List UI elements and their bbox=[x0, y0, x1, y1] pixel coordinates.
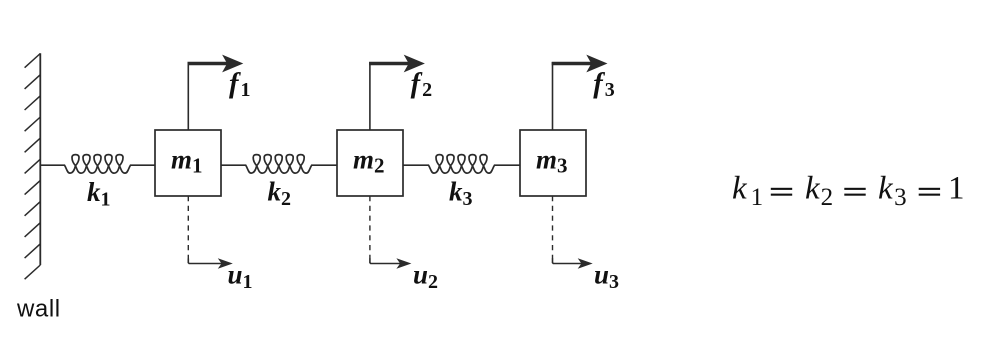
spring k3 bbox=[403, 155, 520, 174]
equation k1 = k2 = k3 = 1 bbox=[732, 171, 965, 211]
wall hatching bbox=[25, 54, 41, 280]
force arrow f3 bbox=[552, 55, 608, 130]
displacement arrow u2 bbox=[370, 196, 412, 269]
mass m2 bbox=[337, 130, 403, 196]
mass m3 bbox=[520, 130, 586, 196]
svg-text:wall: wall bbox=[16, 295, 61, 322]
displacement arrow u3 bbox=[553, 196, 593, 269]
spring k2 bbox=[221, 155, 337, 174]
mass m1 bbox=[155, 130, 221, 196]
force arrow f1 bbox=[188, 55, 244, 130]
force arrow f2 bbox=[369, 55, 425, 130]
displacement arrow u1 bbox=[188, 196, 233, 269]
spring k1 bbox=[40, 155, 155, 174]
svg-text:1: 1 bbox=[948, 171, 965, 207]
wall line bbox=[39, 53, 41, 265]
